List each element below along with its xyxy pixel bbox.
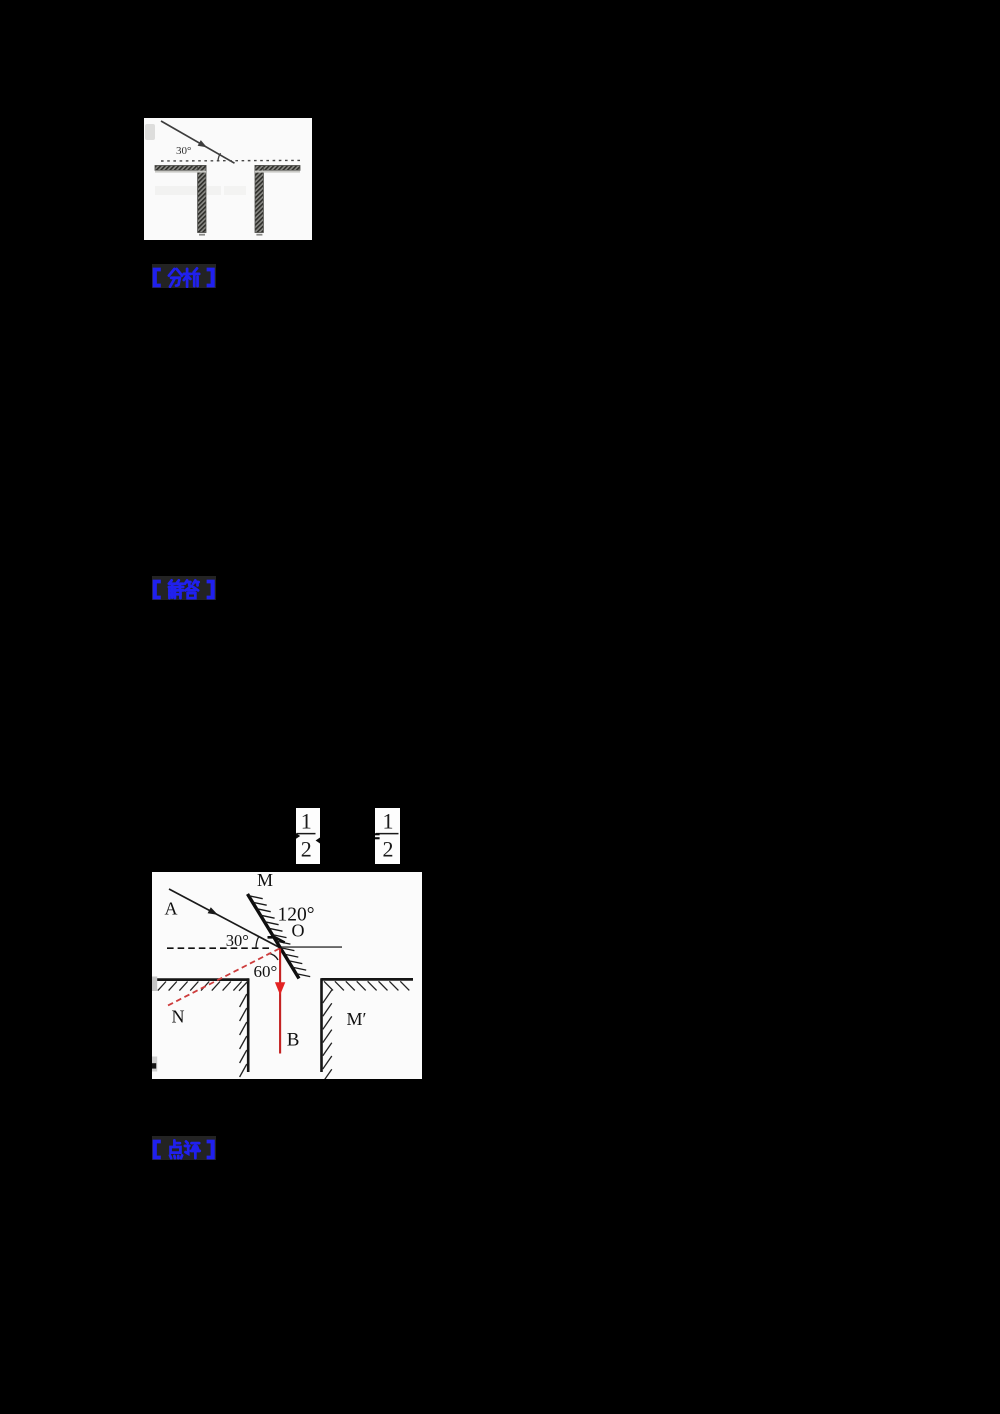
svg-text:N: N	[172, 1007, 185, 1027]
svg-text:30°: 30°	[176, 145, 191, 157]
svg-text:60°: 60°	[254, 962, 278, 981]
svg-text:B: B	[287, 1030, 300, 1051]
svg-text:M: M	[257, 872, 273, 890]
svg-text:M′: M′	[347, 1009, 367, 1029]
svg-text:1: 1	[383, 809, 394, 834]
svg-text:2: 2	[383, 837, 394, 862]
svg-text:2: 2	[301, 837, 312, 862]
svg-text:A: A	[165, 899, 178, 919]
svg-text:1: 1	[301, 809, 312, 834]
svg-text:30°: 30°	[226, 931, 249, 950]
svg-text:O: O	[292, 921, 305, 941]
